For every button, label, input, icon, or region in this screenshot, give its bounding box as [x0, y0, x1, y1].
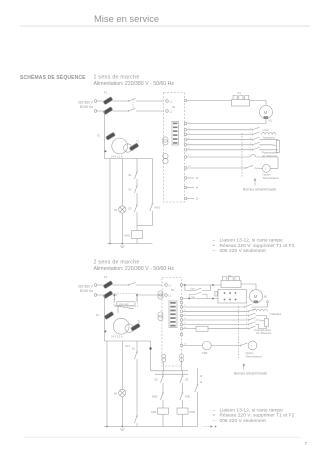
svg-text:F2: F2: [97, 134, 101, 138]
svg-text:Alimentation: 220/380 V - 50/6: Alimentation: 220/380 V - 50/60 Hz: [94, 81, 175, 87]
svg-text:L1: L1: [170, 101, 173, 104]
svg-text:de référence: de référence: [256, 331, 272, 335]
svg-text:M1: M1: [269, 119, 273, 122]
svg-text:Liaison 13-12, si carte rampe: Liaison 13-12, si carte rampe: [220, 238, 284, 244]
svg-text:S3: S3: [128, 207, 132, 211]
svg-text:50 60 Hz: 50 60 Hz: [80, 289, 94, 293]
svg-text:KM1 KM2: KM1 KM2: [119, 304, 129, 306]
svg-text:T1: T1: [136, 140, 140, 144]
svg-text:50 60 Hz: 50 60 Hz: [80, 105, 94, 109]
svg-text:S1: S1: [132, 347, 136, 351]
svg-text:M: M: [264, 110, 268, 115]
svg-text:Bornes aimant travail: Bornes aimant travail: [234, 372, 267, 376]
svg-text:Thermistance: Thermistance: [263, 176, 280, 180]
svg-text:7: 7: [305, 441, 308, 447]
svg-text:de référence: de référence: [262, 154, 278, 158]
svg-text:KM2: KM2: [152, 395, 158, 399]
svg-text:1 sens de marche: 1 sens de marche: [94, 74, 140, 80]
svg-text:Bornes aimant travail: Bornes aimant travail: [243, 188, 276, 192]
svg-text:L2: L2: [170, 111, 173, 114]
svg-text:M: M: [254, 294, 258, 299]
svg-text:12: 12: [200, 381, 203, 384]
svg-text:14: 14: [196, 187, 199, 190]
svg-text:2 sens de marche: 2 sens de marche: [94, 259, 140, 265]
svg-text:KM2: KM2: [190, 410, 196, 414]
svg-text:S2: S2: [128, 188, 132, 192]
svg-text:t: t: [251, 344, 252, 348]
svg-text:S3: S3: [185, 378, 189, 382]
svg-text:KM1: KM1: [124, 234, 130, 238]
svg-text:006 220 V seulement: 006 220 V seulement: [220, 248, 267, 254]
svg-text:R1: R1: [238, 91, 242, 95]
svg-text:F2: F2: [96, 313, 100, 317]
svg-text:t: t: [265, 167, 266, 171]
svg-text:Alimentation: 220/380 V - 50/6: Alimentation: 220/380 V - 50/60 Hz: [94, 266, 175, 272]
svg-text:–: –: [213, 249, 216, 254]
svg-text:n max: n max: [262, 129, 270, 132]
svg-text:Potentiomètre: Potentiomètre: [262, 151, 279, 155]
svg-text:–: –: [213, 419, 216, 424]
svg-text:Mise en service: Mise en service: [94, 13, 159, 24]
svg-text:M1: M1: [264, 296, 268, 299]
svg-text:KM1: KM1: [151, 410, 157, 414]
svg-text:R1: R1: [228, 274, 232, 278]
svg-text:B1: B1: [173, 106, 177, 109]
svg-text:H1: H1: [114, 208, 118, 212]
svg-text:24 V 0,1 A: 24 V 0,1 A: [111, 336, 123, 339]
svg-text:F1: F1: [104, 91, 108, 95]
svg-text:Liaison 13-12, si carte rampe: Liaison 13-12, si carte rampe: [220, 408, 284, 414]
svg-text:Réseau 220 V: supprimer T1 et: Réseau 220 V: supprimer T1 et F2: [220, 413, 295, 419]
svg-text:13: 13: [200, 375, 203, 378]
svg-text:S2: S2: [154, 378, 158, 382]
svg-text:13: 13: [196, 177, 199, 180]
svg-text:24 V: 24 V: [125, 345, 130, 348]
svg-text:24 V 0,1 A: 24 V 0,1 A: [111, 155, 123, 158]
svg-text:KM1: KM1: [185, 395, 191, 399]
svg-text:KM1: KM1: [155, 206, 161, 210]
svg-text:Option: Option: [246, 351, 254, 355]
svg-text:12: 12: [196, 198, 199, 201]
svg-text:KM3: KM3: [202, 351, 208, 355]
svg-text:KM2: KM2: [191, 297, 196, 299]
svg-text:Indicateur: Indicateur: [270, 312, 282, 316]
svg-text:Option: Option: [263, 173, 271, 177]
svg-text:Réseau 220 V: supprimer T1 et: Réseau 220 V: supprimer T1 et F2: [220, 243, 295, 249]
svg-text:F1: F1: [104, 275, 108, 279]
svg-text:Thermistance: Thermistance: [246, 355, 263, 359]
svg-text:L2: L2: [169, 295, 172, 298]
svg-text:T1: T1: [138, 320, 142, 324]
svg-text:L1: L1: [169, 285, 172, 288]
svg-text:H1: H1: [114, 391, 118, 395]
svg-text:S1: S1: [128, 173, 132, 177]
svg-text:SCHÉMAS DE SÉQUENCE: SCHÉMAS DE SÉQUENCE: [20, 73, 86, 81]
svg-text:t°: t°: [251, 165, 253, 168]
svg-text:KM1: KM1: [191, 289, 196, 291]
svg-text:Indicateur: Indicateur: [263, 135, 275, 139]
svg-text:006 220 V seulement: 006 220 V seulement: [220, 418, 267, 424]
svg-text:B1: B1: [172, 289, 176, 292]
